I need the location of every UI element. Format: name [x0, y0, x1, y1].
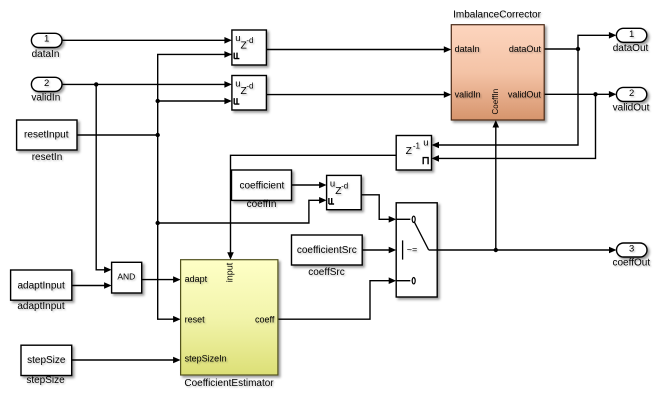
block CoefficientEstimator — [181, 260, 278, 389]
block stepSize — [21, 345, 72, 386]
wire reset bus vertical with top branch to Delay1 and bottom branch to reset — [158, 51, 232, 322]
svg-text:coeffOut: coeffOut — [612, 258, 650, 269]
outport 2 validOut — [613, 87, 650, 113]
svg-text:adaptInput: adaptInput — [17, 281, 64, 292]
block Switch — [396, 203, 437, 297]
wire validIn branch to AND input 1 — [96, 84, 111, 273]
block Delay2 — [232, 76, 267, 111]
svg-text:-d: -d — [246, 81, 253, 90]
inport 2 validIn — [31, 77, 62, 103]
svg-text:dataOut: dataOut — [613, 43, 649, 54]
svg-text:adaptInput: adaptInput — [17, 301, 64, 312]
svg-text:coefficientSrc: coefficientSrc — [297, 245, 357, 256]
svg-text:-d: -d — [341, 181, 348, 190]
svg-text:stepSizeIn: stepSizeIn — [185, 354, 227, 364]
svg-text:2: 2 — [44, 78, 49, 89]
junction coeff output — [494, 248, 498, 252]
svg-text:3: 3 — [629, 244, 634, 255]
wire coefficient to Delay3 port u — [292, 182, 327, 189]
svg-text:ImbalanceCorrector: ImbalanceCorrector — [453, 10, 541, 21]
wire AND output to adapt port — [142, 276, 181, 283]
svg-text:adapt: adapt — [185, 274, 208, 284]
block ImbalanceCorrector — [451, 10, 544, 121]
svg-text:CoeffIn: CoeffIn — [491, 89, 500, 115]
svg-text:coeffSrc: coeffSrc — [308, 267, 345, 278]
wire Delay2 output to ImbalanceCorrector validIn — [266, 91, 451, 98]
svg-text:u: u — [423, 138, 428, 149]
svg-text:1: 1 — [629, 29, 634, 40]
svg-text:validIn: validIn — [31, 93, 60, 104]
svg-text:validOut: validOut — [613, 102, 650, 113]
svg-text:coeffIn: coeffIn — [247, 199, 277, 210]
outport 3 coeffOut — [612, 243, 650, 269]
block Z1 unit delay mirrored — [396, 136, 431, 171]
wire coeff branch up to CoeffIn port — [493, 120, 500, 250]
svg-text:~=: ~= — [407, 244, 418, 254]
block Delay1 — [232, 30, 267, 65]
wire validOut to outport 2 — [544, 91, 616, 98]
wire Switch output to outport 3 — [437, 247, 616, 254]
wire dataIn to Delay1 port u — [62, 37, 232, 44]
junction validIn branch — [94, 82, 98, 86]
wire validOut branch to Z1 port 2 — [432, 94, 596, 161]
svg-text:AND: AND — [117, 272, 135, 282]
wire reset bus branch to Delay2 — [158, 98, 232, 105]
svg-text:dataIn: dataIn — [32, 49, 60, 60]
outport 1 dataOut — [613, 28, 649, 54]
svg-text:-d: -d — [246, 36, 253, 45]
svg-text:-1: -1 — [413, 142, 421, 151]
svg-text:1: 1 — [44, 34, 49, 45]
block coefficient — [232, 170, 292, 210]
wire adaptInput to AND input 2 — [72, 282, 112, 289]
block Delay3 — [327, 175, 362, 209]
wire stepSize to stepSizeIn port — [72, 357, 181, 364]
svg-text:resetIn: resetIn — [32, 152, 63, 163]
wire coefficientSrc to Switch input 2 — [362, 247, 396, 254]
svg-text:CoefficientEstimator: CoefficientEstimator — [184, 378, 274, 389]
svg-text:dataOut: dataOut — [509, 44, 542, 54]
svg-text:stepSize: stepSize — [26, 375, 65, 386]
junction reset bus at delay2 branch — [156, 99, 160, 103]
junction reset bus at delay3 branch — [156, 221, 160, 225]
wire Delay3 output to Switch input 1 — [361, 195, 396, 223]
svg-text:Z: Z — [406, 146, 412, 157]
svg-text:input: input — [224, 262, 234, 282]
svg-text:reset: reset — [185, 315, 206, 325]
wire validIn to Delay2 port u — [62, 81, 232, 88]
wire resetInput to reset bus — [77, 134, 158, 136]
svg-text:coeff: coeff — [255, 315, 275, 325]
block adaptInput — [11, 270, 72, 312]
wire dataOut branch to Z1 port u — [432, 49, 579, 148]
svg-text:resetInput: resetInput — [24, 130, 69, 141]
block coefficientSrc — [292, 235, 363, 278]
block resetInput — [17, 120, 77, 163]
svg-text:validOut: validOut — [508, 90, 542, 100]
svg-text:coefficient: coefficient — [239, 180, 284, 191]
block AND — [112, 262, 142, 293]
junction reset bus at resetInput — [156, 133, 160, 137]
junction validOut — [593, 92, 597, 96]
wire reset bus branch to Delay3 — [158, 197, 327, 223]
svg-text:validIn: validIn — [455, 90, 481, 100]
svg-text:stepSize: stepSize — [27, 355, 66, 366]
svg-text:dataIn: dataIn — [455, 44, 480, 54]
wire coeff output to Switch input 3 — [278, 277, 396, 319]
junction dataOut — [576, 47, 580, 51]
wire dataOut to outport 1 — [544, 32, 616, 49]
wire Z1 output to input port of CoefficientEstimator — [227, 155, 396, 259]
svg-text:2: 2 — [629, 88, 634, 99]
wire Delay1 output to ImbalanceCorrector dataIn — [266, 46, 451, 53]
inport 1 dataIn — [31, 33, 62, 60]
